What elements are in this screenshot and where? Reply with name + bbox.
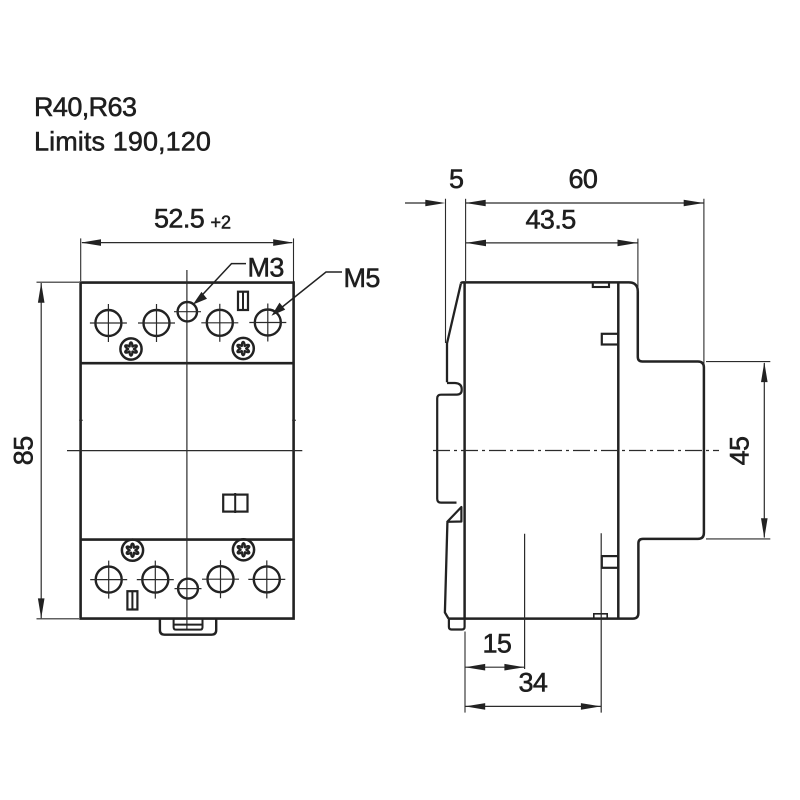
torx screw top-right: [233, 338, 254, 359]
torx screw bottom-left: [122, 540, 143, 561]
M3 leader: [198, 264, 246, 300]
terminal circle top 1: [90, 304, 127, 342]
top bevel: [447, 284, 461, 383]
terminal circle top 3: [201, 304, 238, 342]
rail hook top: [437, 383, 462, 503]
front view body outline: [81, 283, 294, 619]
bottom notch: [594, 614, 607, 619]
interior line 15: [524, 534, 526, 669]
M3 screw hole bottom: [178, 579, 198, 599]
extension line right: [293, 238, 295, 281]
dimension 45: [725, 437, 755, 466]
extension line top: [37, 281, 80, 283]
indicator window: [223, 495, 247, 512]
right edge jog tick: [292, 419, 296, 421]
side view outline: [448, 282, 704, 618]
rail spring tip: [447, 507, 461, 522]
terminal circle bottom 4: [248, 560, 285, 598]
svg-text:Limits 190,120: Limits 190,120: [34, 127, 211, 157]
top terminal section separator: [81, 362, 294, 365]
torx screw bottom-right: [233, 539, 254, 560]
rail clip lower body: [445, 523, 449, 619]
svg-text:60: 60: [569, 164, 598, 194]
top notch: [593, 282, 609, 287]
terminal circle top 2: [138, 304, 175, 342]
side body front edge: [463, 282, 466, 618]
dim line 52.5: [82, 242, 292, 244]
M3 screw hole top: [178, 302, 197, 321]
M5 leader: [276, 272, 342, 312]
torx screw top-left: [120, 338, 141, 359]
left edge jog tick: [79, 419, 82, 421]
bottom foot: [449, 619, 465, 630]
svg-text:34: 34: [519, 667, 548, 697]
vertical center line: [186, 270, 188, 630]
svg-text:+2: +2: [211, 213, 232, 233]
svg-text:52.5: 52.5: [154, 204, 204, 234]
DIN clip inner: [174, 619, 203, 630]
horizontal center line: [67, 450, 302, 452]
DIN clip tab below front view: [160, 619, 216, 635]
terminal marker top: [238, 292, 248, 310]
svg-text:5: 5: [449, 164, 463, 194]
svg-text:45: 45: [725, 437, 755, 466]
terminal circle bottom 2: [137, 561, 174, 599]
svg-text:15: 15: [483, 629, 512, 659]
svg-text:R40,R63: R40,R63: [34, 92, 136, 122]
top tab: [602, 334, 619, 345]
extension line bottom: [37, 618, 80, 620]
side body rear face line: [617, 282, 620, 618]
svg-text:M3: M3: [248, 253, 284, 283]
interior line 34: [600, 533, 602, 712]
dim line 85: [40, 283, 42, 618]
terminal circle top 4: [249, 304, 286, 342]
bottom tab: [602, 556, 619, 568]
svg-text:85: 85: [9, 436, 39, 465]
extension line left: [80, 238, 82, 281]
side center line: [433, 450, 719, 452]
svg-text:43.5: 43.5: [526, 205, 576, 235]
bottom terminal section separator: [81, 538, 294, 541]
svg-text:M5: M5: [344, 263, 380, 293]
dimension 85: [9, 436, 39, 465]
terminal marker bottom: [127, 591, 137, 609]
terminal circle bottom 3: [202, 560, 239, 598]
terminal circle bottom 1: [90, 561, 127, 599]
